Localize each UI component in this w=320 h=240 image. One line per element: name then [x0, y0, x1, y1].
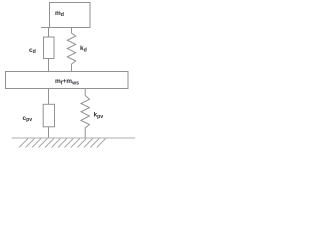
- damper c_pv rod (lower): [48, 127, 50, 138]
- damper c_pv rod (upper): [48, 89, 50, 105]
- mass m_f+m_ws (middle box): [6, 72, 129, 89]
- spring k_d: [67, 28, 75, 72]
- ground line: [12, 137, 136, 139]
- damper C_d body: [44, 37, 55, 59]
- damper C_d rod (lower): [48, 59, 50, 72]
- damper c_pv body: [43, 104, 54, 127]
- svg-text:cd: cd: [29, 47, 36, 55]
- svg-text:kd: kd: [80, 45, 87, 53]
- svg-text:kpv: kpv: [94, 112, 104, 120]
- damper C_d rod (upper): [48, 28, 50, 38]
- ground hatching: [19, 139, 106, 148]
- damper C_d top bar: [41, 27, 50, 29]
- svg-text:cpv: cpv: [23, 115, 33, 123]
- mass m_d (top box): [50, 3, 91, 28]
- spring k_pv: [81, 89, 89, 139]
